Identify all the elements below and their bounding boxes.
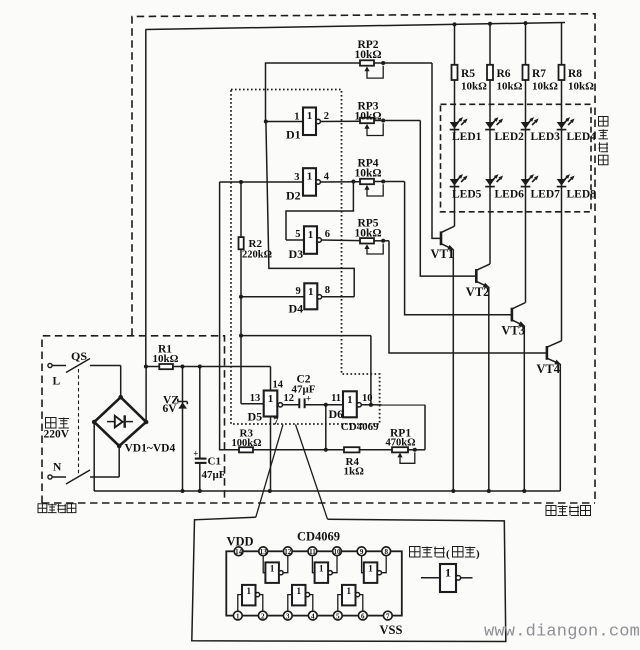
svg-text:1: 1	[368, 565, 373, 575]
svg-text:VD1~VD4: VD1~VD4	[125, 443, 176, 455]
svg-text:1: 1	[347, 394, 353, 406]
svg-text:6V: 6V	[163, 403, 178, 415]
svg-text:10kΩ: 10kΩ	[461, 81, 487, 93]
svg-text:LED2: LED2	[495, 131, 525, 143]
svg-text:10kΩ: 10kΩ	[354, 49, 381, 61]
svg-text:4: 4	[311, 612, 315, 620]
svg-text:D1: D1	[286, 128, 301, 142]
svg-text:VT3: VT3	[501, 324, 525, 338]
svg-text:QS: QS	[71, 349, 87, 363]
svg-text:LED3: LED3	[531, 131, 561, 143]
svg-text:220kΩ: 220kΩ	[242, 250, 272, 261]
svg-text:L: L	[53, 376, 61, 388]
svg-text:10kΩ: 10kΩ	[497, 81, 523, 93]
svg-text:1kΩ: 1kΩ	[344, 466, 365, 478]
svg-text:6: 6	[325, 229, 330, 240]
svg-text:10kΩ: 10kΩ	[354, 168, 381, 180]
svg-text:(: (	[446, 548, 450, 560]
svg-text:1: 1	[308, 286, 314, 298]
svg-text:1: 1	[268, 393, 274, 405]
svg-text:1: 1	[296, 587, 301, 597]
svg-text:10kΩ: 10kΩ	[354, 228, 381, 240]
svg-text:2: 2	[261, 612, 265, 620]
svg-text:1: 1	[270, 565, 275, 575]
svg-text:D5: D5	[248, 409, 263, 423]
svg-text:8: 8	[384, 548, 388, 556]
svg-text:47μF: 47μF	[202, 469, 226, 481]
svg-text:LED4: LED4	[567, 131, 597, 143]
svg-text:VT1: VT1	[431, 247, 455, 261]
svg-text:C1: C1	[208, 456, 221, 468]
svg-text:VT4: VT4	[536, 362, 560, 376]
svg-text:9: 9	[360, 548, 364, 556]
svg-text:D4: D4	[289, 301, 304, 315]
svg-text:1: 1	[294, 112, 299, 123]
svg-text:1: 1	[346, 587, 351, 597]
svg-text:3: 3	[294, 172, 299, 183]
svg-text:220V: 220V	[44, 429, 70, 441]
svg-text:LED5: LED5	[452, 189, 482, 201]
svg-text:CD4069: CD4069	[297, 530, 340, 544]
svg-text:4: 4	[324, 172, 330, 183]
svg-text:1: 1	[246, 587, 251, 597]
svg-text:10kΩ: 10kΩ	[532, 81, 558, 93]
svg-text:1: 1	[319, 565, 324, 575]
svg-text:www.diangon.com: www.diangon.com	[484, 623, 640, 642]
svg-text:14: 14	[273, 379, 284, 390]
svg-text:R6: R6	[497, 68, 511, 80]
svg-text:13: 13	[260, 548, 268, 556]
svg-text:12: 12	[284, 548, 292, 556]
svg-text:10kΩ: 10kΩ	[153, 353, 179, 365]
svg-text:CD4069: CD4069	[341, 421, 379, 433]
svg-text:3: 3	[286, 612, 290, 620]
svg-text:14: 14	[235, 548, 243, 556]
svg-text:9: 9	[296, 286, 301, 297]
svg-text:1: 1	[308, 229, 314, 241]
svg-text:+: +	[193, 449, 198, 459]
svg-text:LED1: LED1	[452, 131, 482, 143]
svg-text:VSS: VSS	[380, 623, 403, 637]
svg-text:11: 11	[309, 548, 316, 556]
svg-text:LED6: LED6	[495, 189, 525, 201]
svg-text:R7: R7	[532, 68, 546, 80]
svg-text:R8: R8	[568, 68, 582, 80]
svg-text:10: 10	[334, 548, 342, 556]
svg-text:10kΩ: 10kΩ	[568, 81, 594, 93]
svg-text:R2: R2	[249, 238, 263, 250]
svg-text:D3: D3	[289, 247, 304, 261]
svg-text:7: 7	[273, 416, 278, 427]
svg-text:LED8: LED8	[567, 189, 597, 201]
svg-text:LED7: LED7	[531, 189, 561, 201]
svg-text:13: 13	[250, 393, 261, 404]
svg-text:2: 2	[324, 111, 329, 122]
svg-text:8: 8	[325, 285, 330, 296]
svg-text:1: 1	[445, 566, 451, 580]
svg-text:6: 6	[361, 612, 365, 620]
svg-text:D6: D6	[329, 407, 344, 421]
svg-text:100kΩ: 100kΩ	[232, 438, 262, 449]
svg-text:1: 1	[236, 612, 240, 620]
svg-text:11: 11	[331, 393, 341, 404]
svg-text:5: 5	[295, 229, 300, 240]
svg-text:47μF: 47μF	[292, 384, 316, 396]
svg-text:1: 1	[307, 110, 313, 122]
svg-text:D2: D2	[286, 188, 301, 202]
svg-text:1: 1	[307, 171, 313, 183]
svg-text:470kΩ: 470kΩ	[386, 437, 416, 448]
svg-text:): )	[476, 548, 480, 560]
svg-text:7: 7	[386, 612, 390, 620]
svg-text:10: 10	[362, 393, 373, 404]
svg-text:VT2: VT2	[466, 285, 490, 299]
svg-text:N: N	[53, 462, 62, 474]
svg-text:5: 5	[336, 612, 340, 620]
svg-text:VDD: VDD	[227, 535, 254, 549]
svg-text:R5: R5	[461, 68, 475, 80]
